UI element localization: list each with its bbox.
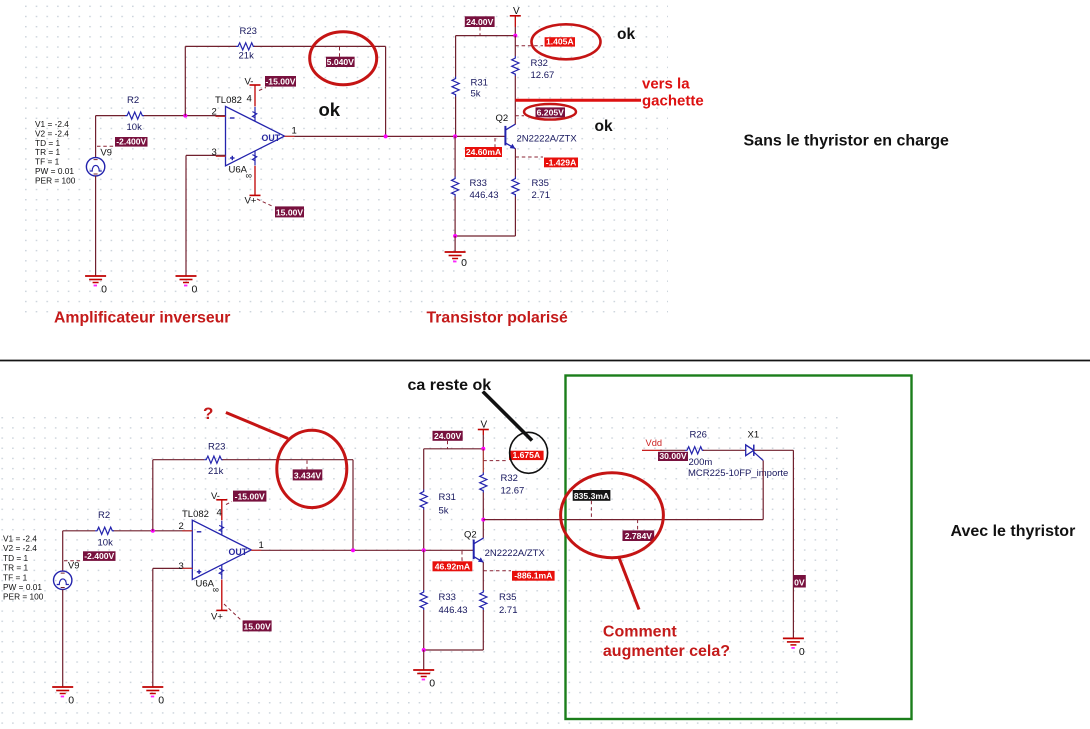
wire Vdd to R26 <box>642 449 662 451</box>
svg-text:TR = 1: TR = 1 <box>3 563 29 573</box>
ground thyristor branch <box>783 638 805 658</box>
svg-text:200m: 200m <box>689 457 713 468</box>
wire collector branch upper <box>514 36 516 56</box>
pin 3 wire bottom <box>153 567 193 569</box>
svg-text:5k: 5k <box>471 89 481 100</box>
svg-text:12.67: 12.67 <box>531 70 555 81</box>
transistor Q2 bottom 2N2222A/ZTX <box>473 540 475 560</box>
current probe dash 24.60mA <box>494 138 496 147</box>
wire feedback top right <box>254 45 386 47</box>
wire R32 to collector junction <box>482 493 484 538</box>
wire feedback top right bottom <box>222 459 353 461</box>
resistor R32 bottom <box>480 473 487 493</box>
red annotation ellipse around 1.405A <box>532 24 601 59</box>
svg-text:24.00V: 24.00V <box>466 17 494 27</box>
resistor R2 <box>125 112 144 119</box>
bias label -2.400V bottom <box>64 560 83 562</box>
red annotation big ellipse comment augmenter <box>561 473 664 558</box>
wire R2 to opamp pin2 <box>143 115 226 117</box>
svg-text:Comment: Comment <box>603 624 677 641</box>
svg-text:∞: ∞ <box>246 171 252 181</box>
current probe dash -886.1mA <box>483 570 511 572</box>
svg-text:1: 1 <box>259 540 264 551</box>
transistor Q2 top 2N2222A/ZTX <box>504 126 506 145</box>
svg-text:ok: ok <box>319 99 341 120</box>
red annotation ellipse around 6.205V <box>524 104 576 120</box>
bias label 24.00V bottom <box>433 431 463 441</box>
svg-text:V9: V9 <box>68 561 79 571</box>
current label -886.1mA <box>512 571 555 581</box>
svg-text:V+: V+ <box>245 196 257 207</box>
bias label 6.205V with dash <box>515 115 524 117</box>
bias label 5.040V with probe dash <box>339 47 341 57</box>
node junction V rail <box>513 34 517 38</box>
resistor R23 feedback <box>236 43 255 50</box>
svg-text:R35: R35 <box>532 178 549 189</box>
resistor R31 <box>452 77 459 97</box>
svg-text:V-: V- <box>211 491 220 502</box>
svg-text:V9: V9 <box>101 148 112 158</box>
node junction input <box>183 114 187 118</box>
current probe dash 1.675A <box>483 460 508 462</box>
current label 835.3mA black <box>573 490 611 501</box>
node junction base R31 <box>453 134 457 138</box>
resistor R33 <box>452 177 459 197</box>
bias label -15.00V bottom <box>233 491 266 502</box>
current label 24.60mA <box>465 147 502 157</box>
svg-text:24.00V: 24.00V <box>434 431 462 441</box>
svg-text:4: 4 <box>247 94 252 105</box>
op-amp V- power pin <box>250 84 261 86</box>
svg-text:10k: 10k <box>98 538 114 549</box>
svg-text:446.43: 446.43 <box>470 190 499 201</box>
svg-text:Q2: Q2 <box>496 113 509 124</box>
svg-text:R31: R31 <box>439 492 456 503</box>
svg-text:?: ? <box>203 404 213 423</box>
svg-text:TD = 1: TD = 1 <box>3 553 29 563</box>
svg-text:PER = 100: PER = 100 <box>3 592 44 602</box>
op-amp U6A bottom TL082 <box>192 520 251 579</box>
svg-text:PW = 0.01: PW = 0.01 <box>3 582 42 592</box>
svg-text:6.205V: 6.205V <box>537 107 565 117</box>
wire feedback right vertical bottom <box>352 460 354 551</box>
svg-text:1.675A: 1.675A <box>512 450 540 460</box>
ground under pin3 wire <box>176 276 198 296</box>
node junction V rail bottom <box>481 447 485 451</box>
op-amp pin stubs red bottom <box>182 530 192 532</box>
wire emitter branch <box>514 149 516 177</box>
svg-text:R23: R23 <box>208 442 225 453</box>
op-amp pin stubs red top <box>216 115 226 117</box>
svg-text:R32: R32 <box>501 473 518 484</box>
svg-text:0V: 0V <box>794 578 805 588</box>
bias label 30.00V <box>658 451 688 461</box>
resistor R23 bottom <box>204 456 223 463</box>
wire R31 branch bottom <box>423 449 425 490</box>
svg-text:0: 0 <box>799 646 805 658</box>
wire thyristor cathode right <box>754 449 794 451</box>
svg-text:-15.00V: -15.00V <box>235 492 265 502</box>
node junction input bottom <box>151 529 155 533</box>
current label 1.405A <box>545 37 575 47</box>
wire collector to thyristor gate <box>483 519 763 521</box>
ground under V9 bottom <box>52 687 74 707</box>
svg-text:21k: 21k <box>208 466 224 477</box>
bias label 3.434V with dash <box>306 460 308 469</box>
svg-text:R33: R33 <box>470 178 487 189</box>
wire pin3 to ground bottom <box>152 568 154 687</box>
svg-text:0: 0 <box>461 257 467 269</box>
svg-text:15.00V: 15.00V <box>243 621 271 631</box>
resistor R33 bottom <box>420 590 427 610</box>
svg-text:5k: 5k <box>439 506 449 517</box>
wire collector branch bottom <box>482 449 484 473</box>
wire R26 to thyristor <box>703 449 746 451</box>
svg-text:V-: V- <box>245 77 254 88</box>
red annotation thick line vers la gachette <box>515 99 641 102</box>
svg-text:Vdd: Vdd <box>646 438 663 448</box>
grid dots bottom schematic area <box>1 415 839 724</box>
svg-text:Q2: Q2 <box>464 530 477 541</box>
voltage source V9 bottom <box>54 571 72 589</box>
svg-text:21k: 21k <box>239 51 255 62</box>
wire V9 to R2 bottom <box>62 531 64 571</box>
thyristor X1 MCR225-10FP <box>746 445 764 461</box>
wire feedback left vertical <box>184 46 186 115</box>
node junction output feedback bottom <box>351 548 355 552</box>
black annotation pointer line ca reste ok <box>483 392 532 441</box>
svg-text:PER = 100: PER = 100 <box>35 175 76 185</box>
op-amp U6A top TL082 <box>226 106 285 165</box>
svg-text:V1 = -2.4: V1 = -2.4 <box>3 534 37 544</box>
svg-text:TL082: TL082 <box>182 509 209 520</box>
svg-text:gachette: gachette <box>642 93 704 110</box>
bias label 15.00V bottom <box>243 620 272 631</box>
svg-text:Transistor polarisé: Transistor polarisé <box>427 310 569 327</box>
svg-text:ok: ok <box>617 26 635 43</box>
wire feedback left vertical bottom <box>152 460 154 531</box>
wire feedback top left bottom <box>153 459 204 461</box>
svg-text:2N2222A/ZTX: 2N2222A/ZTX <box>517 134 578 145</box>
wire R35 to bottom rail <box>514 197 516 237</box>
svg-text:ca reste ok: ca reste ok <box>408 377 492 394</box>
svg-text:-2.400V: -2.400V <box>116 137 146 147</box>
wire R2 to opamp pin2 bottom <box>113 530 192 532</box>
svg-text:∞: ∞ <box>213 585 219 595</box>
op-amp V+ power pin bottom <box>221 580 223 611</box>
resistor R26 <box>685 447 704 454</box>
svg-text:TL082: TL082 <box>215 95 242 106</box>
svg-text:446.43: 446.43 <box>439 605 468 616</box>
svg-text:1: 1 <box>292 126 297 137</box>
svg-text:MCR225-10FP_importe: MCR225-10FP_importe <box>688 468 788 479</box>
svg-text:TF = 1: TF = 1 <box>3 572 28 582</box>
red annotation circle around 3.434V <box>277 430 347 507</box>
svg-text:V+: V+ <box>211 612 223 623</box>
svg-text:0: 0 <box>158 695 164 707</box>
bias label -15.00V top <box>265 76 296 87</box>
svg-text:Avec le thyristor: Avec le thyristor <box>951 523 1076 540</box>
svg-text:V2 = -2.4: V2 = -2.4 <box>3 543 37 553</box>
wire cathode branch down to ground <box>792 450 794 638</box>
wire feedback right vertical <box>385 46 387 136</box>
svg-text:ok: ok <box>595 118 613 135</box>
wire feedback top left <box>185 45 236 47</box>
grid dots top schematic area <box>23 3 668 319</box>
bias label -2.400V top <box>97 145 115 147</box>
red annotation ellipse around 5.040V <box>310 32 377 85</box>
svg-text:-886.1mA: -886.1mA <box>514 571 552 581</box>
svg-text:R23: R23 <box>240 26 257 37</box>
svg-text:0: 0 <box>429 678 435 690</box>
wire R33 branch lower bottom <box>423 550 425 590</box>
wire R33 branch <box>454 136 456 176</box>
wire bottom rail bottom section <box>424 649 484 651</box>
svg-text:OUT: OUT <box>262 133 281 143</box>
svg-text:Amplificateur inverseur: Amplificateur inverseur <box>54 310 230 327</box>
svg-text:vers la: vers la <box>642 76 690 93</box>
svg-text:2N2222A/ZTX: 2N2222A/ZTX <box>485 548 546 559</box>
voltage source V9 <box>86 158 104 176</box>
svg-text:R35: R35 <box>499 592 516 603</box>
svg-text:2.784V: 2.784V <box>625 531 653 541</box>
wire opamp output to transistor base bottom <box>251 549 473 551</box>
wire V9 to ground <box>95 176 97 276</box>
svg-text:Sans le thyristor en charge: Sans le thyristor en charge <box>744 133 950 150</box>
wire R31 branch upper <box>455 36 457 77</box>
svg-text:-1.429A: -1.429A <box>546 157 577 167</box>
svg-text:R33: R33 <box>439 592 456 603</box>
separator line between sections <box>0 360 1090 362</box>
svg-text:OUT: OUT <box>229 547 248 557</box>
green highlight rectangle <box>566 376 912 720</box>
node junction base bottom <box>422 548 426 552</box>
red annotation pointer line from question mark <box>226 413 288 439</box>
wire R31 to base rail <box>455 97 457 137</box>
ground transistor bottom <box>413 670 435 690</box>
svg-text:10k: 10k <box>127 122 143 133</box>
svg-text:835.3mA: 835.3mA <box>574 491 609 501</box>
svg-text:2.71: 2.71 <box>532 190 551 201</box>
pin 3 wire and label <box>186 154 226 156</box>
wire thyristor gate down <box>762 461 764 520</box>
op-amp V+ power pin <box>254 166 256 196</box>
current probe dash -1.429A <box>516 156 544 158</box>
current probe dash 46.92mA <box>461 551 463 561</box>
svg-text:30.00V: 30.00V <box>659 451 687 461</box>
svg-text:0: 0 <box>192 284 198 296</box>
svg-text:R32: R32 <box>531 58 548 69</box>
wire bottom rail to ground <box>455 235 515 237</box>
svg-text:5.040V: 5.040V <box>327 57 355 67</box>
svg-text:-2.400V: -2.400V <box>84 551 114 561</box>
svg-text:24.60mA: 24.60mA <box>466 147 501 157</box>
bias label 2.784V <box>637 520 639 531</box>
current probe dash 1.405A <box>515 45 543 47</box>
red annotation pointer line comment <box>619 558 639 610</box>
resistor R35 bottom <box>480 590 487 610</box>
ground under pin3 bottom <box>142 687 164 707</box>
svg-text:R26: R26 <box>690 430 707 441</box>
wire emitter branch bottom <box>482 562 484 590</box>
svg-text:-15.00V: -15.00V <box>265 77 295 87</box>
bias label 15.00V top <box>275 206 304 217</box>
resistor R35 <box>512 177 519 197</box>
bias label 0V clipped <box>793 575 806 588</box>
wire V9 to ground bottom <box>62 590 64 688</box>
ground under V9 <box>85 276 107 296</box>
svg-text:12.67: 12.67 <box>501 486 525 497</box>
svg-text:2.71: 2.71 <box>499 605 518 616</box>
svg-text:0: 0 <box>101 284 107 296</box>
resistor R31 bottom <box>420 490 427 510</box>
wire opamp output to transistor base <box>285 135 506 137</box>
svg-text:R31: R31 <box>471 78 488 89</box>
svg-text:1.405A: 1.405A <box>546 37 574 47</box>
svg-text:3.434V: 3.434V <box>294 470 322 480</box>
current probe dash 835.3mA <box>590 501 592 520</box>
svg-text:46.92mA: 46.92mA <box>435 561 470 571</box>
current label 1.675A <box>509 450 544 460</box>
op-amp V- power pin bottom <box>216 499 227 501</box>
wire R32 to collector <box>514 76 516 125</box>
node junction collector gate <box>481 518 485 522</box>
current label 46.92mA <box>433 561 473 571</box>
wire pin3 to ground <box>185 155 187 276</box>
wire V9 to R2 input <box>95 116 97 158</box>
svg-text:3: 3 <box>179 561 184 572</box>
ground transistor top <box>445 252 468 269</box>
svg-text:augmenter cela?: augmenter cela? <box>603 643 730 660</box>
svg-text:R2: R2 <box>127 95 139 106</box>
black annotation circle around 1.675A <box>510 432 548 473</box>
wire V rail horizontal <box>456 35 516 37</box>
node junction output feedback <box>384 134 388 138</box>
svg-text:15.00V: 15.00V <box>276 207 304 217</box>
svg-text:R2: R2 <box>98 510 110 521</box>
svg-text:X1: X1 <box>748 430 760 441</box>
svg-text:4: 4 <box>217 508 222 519</box>
svg-text:0: 0 <box>68 695 74 707</box>
wire V rail horizontal bottom <box>424 448 484 450</box>
resistor R2 bottom <box>95 527 114 534</box>
bias label 24.00V top <box>465 16 495 27</box>
current label -1.429A <box>544 157 578 167</box>
resistor R32 <box>512 56 519 76</box>
